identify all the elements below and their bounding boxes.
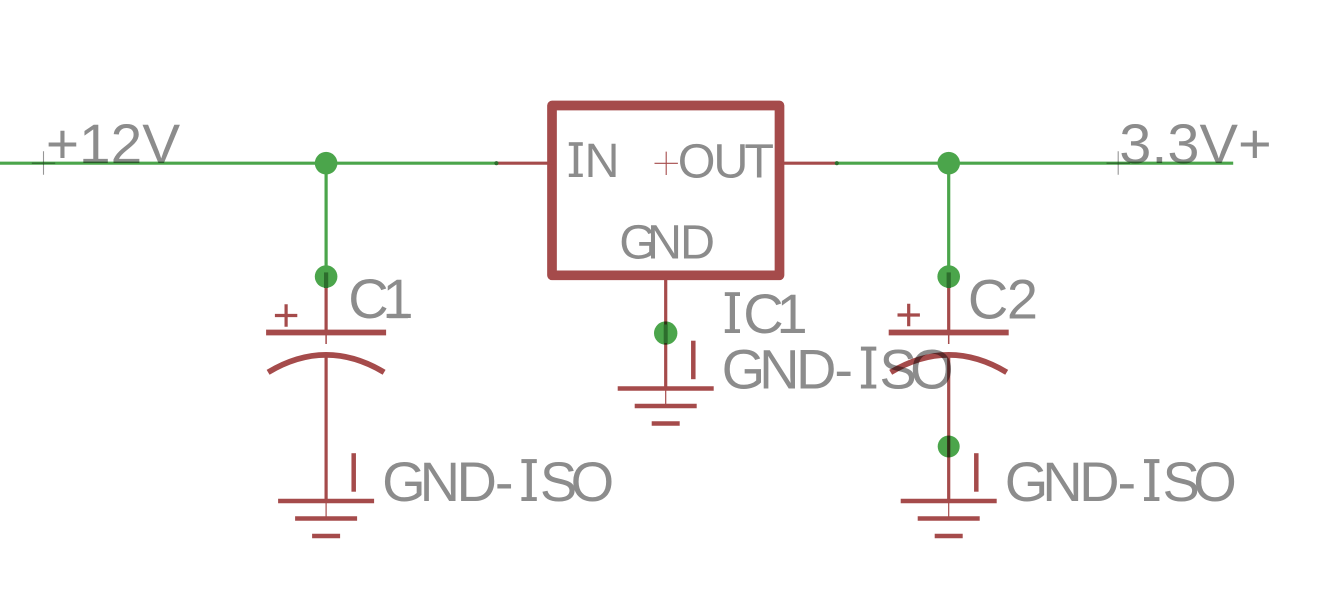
junction at IC1 GND pin [654, 321, 677, 344]
svg-text:C2: C2 [968, 267, 1038, 330]
capacitor C2 bottom pin [947, 354, 950, 501]
capacitor C2 center line [948, 333, 950, 345]
pin tip mark IC1 GND [664, 325, 668, 344]
capacitor C1 bottom plate arc [268, 355, 384, 372]
svg-text:IN: IN [569, 134, 619, 188]
junction at 3.3V+ / C2 [937, 152, 960, 175]
junction at C2 ground pin [938, 436, 960, 458]
wire C2 branch vertical [947, 163, 950, 276]
svg-text:OUT: OUT [678, 135, 774, 189]
GND-ISO middle I-serifs [861, 347, 876, 389]
junction at C1 pin [315, 265, 338, 288]
label C1 digit-1 base serif [389, 314, 408, 318]
svg-text:GND-ISO: GND-ISO [1005, 450, 1237, 513]
GND-ISO right I-serifs [1144, 459, 1159, 501]
svg-text:IC1: IC1 [725, 282, 808, 345]
pin tip dot OUT [835, 161, 839, 165]
pin tip mark C2 [947, 272, 951, 288]
svg-text:3.3V+: 3.3V+ [1119, 112, 1271, 175]
junction at C2 pin [937, 265, 960, 288]
ground GND-ISO right symbol [901, 453, 997, 536]
voltage regulator IC1 body [552, 106, 780, 276]
capacitor C1 bottom pin [325, 354, 328, 501]
ground GND-ISO middle symbol [618, 341, 714, 424]
red symbol layer [266, 106, 1009, 537]
capacitor C2 top pin [947, 277, 950, 333]
pin OUT wire [778, 162, 837, 165]
pin tip dot IN [494, 161, 498, 165]
capacitor C1 plus mark [275, 304, 297, 326]
IC1 origin cross [655, 152, 678, 175]
green net layer [0, 152, 1233, 458]
svg-text:GND-ISO: GND-ISO [382, 450, 614, 513]
ground GND-ISO left symbol [278, 453, 374, 536]
svg-text:GND-ISO: GND-ISO [722, 338, 954, 401]
pin tip mark C1 [324, 272, 328, 288]
pin name IN I-serifs [569, 142, 583, 177]
wire C1 branch vertical [325, 163, 328, 276]
wire net 3.3V+ horizontal [837, 162, 1233, 165]
capacitor C1 center line [325, 333, 327, 345]
dark green pin tips [326, 161, 949, 343]
pin IN wire [496, 162, 553, 165]
pin GND wire [664, 278, 667, 389]
wire net +12V horizontal [0, 162, 496, 165]
capacitor C2 bottom plate arc [891, 355, 1007, 372]
capacitor C1 top plate [266, 330, 386, 336]
capacitor C1 top pin [325, 277, 328, 333]
svg-text:GND: GND [619, 215, 715, 269]
label IC1 I-serifs and 1-serif [725, 292, 803, 333]
net label origin cross 3.3V+ [1107, 151, 1130, 175]
GND-ISO left I-serifs [521, 459, 536, 501]
junction at +12V / C1 [315, 152, 338, 175]
capacitor C2 top plate [889, 330, 1009, 336]
net label origin cross +12V [32, 151, 55, 175]
svg-text:+12V: +12V [46, 112, 181, 175]
capacitor C2 plus mark [898, 304, 920, 326]
svg-text:C1: C1 [348, 267, 413, 330]
